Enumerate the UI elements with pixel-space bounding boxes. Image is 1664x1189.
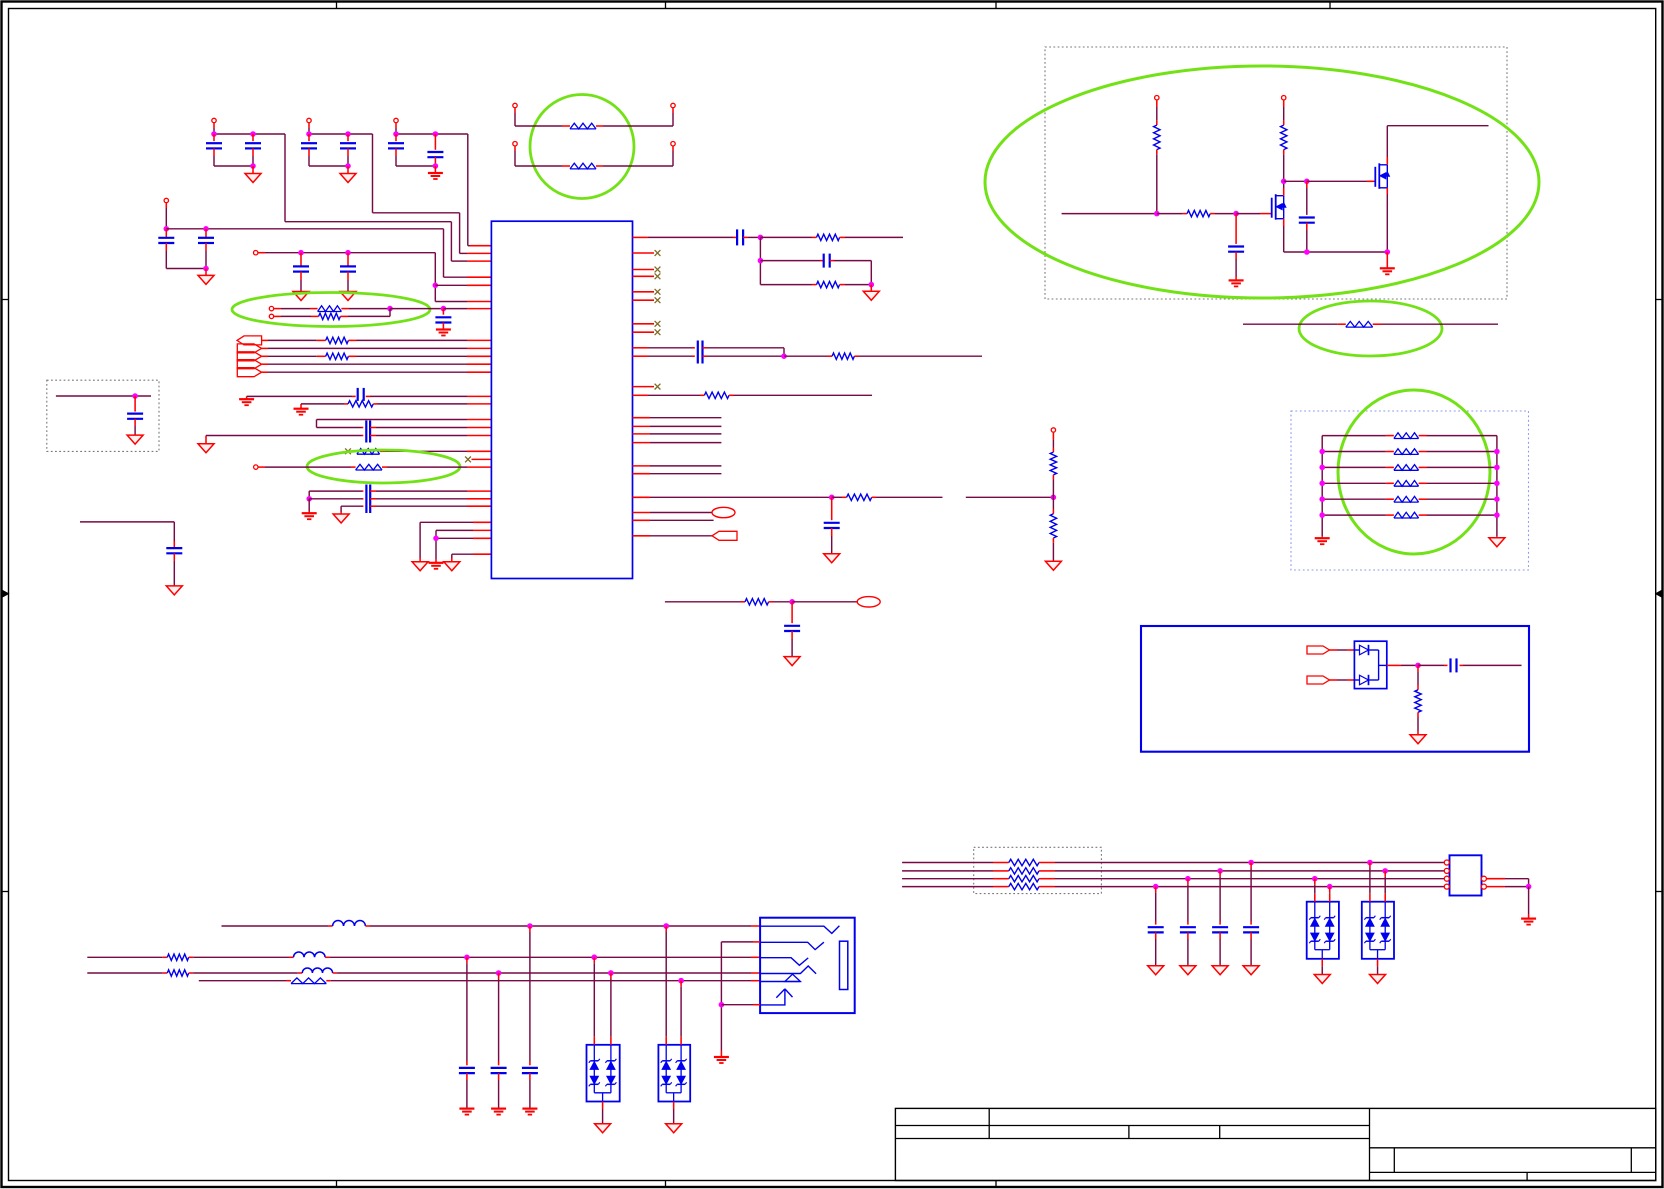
wire <box>1052 538 1054 543</box>
inductor L1 <box>328 925 333 927</box>
wire <box>262 371 268 373</box>
capacitor C16 <box>370 498 376 500</box>
ground <box>127 435 143 444</box>
diode D1 package <box>1354 641 1386 688</box>
ground <box>198 444 214 453</box>
wire <box>1322 466 1386 468</box>
wire <box>1418 664 1444 666</box>
resistor R11 <box>1050 514 1056 538</box>
junction <box>299 250 304 255</box>
connector J1 pin 5 flag <box>237 368 261 377</box>
resistor R2 <box>317 339 326 341</box>
title block bottom divider <box>1526 1172 1528 1180</box>
wire <box>1055 870 1444 872</box>
wire <box>834 260 871 262</box>
title block right column line 1 <box>1393 1148 1395 1173</box>
highlight ellipse <box>232 293 430 327</box>
ground <box>666 1124 682 1133</box>
wire <box>633 347 649 349</box>
resistor R21 <box>163 956 168 958</box>
wire <box>473 529 491 531</box>
resistor R5 <box>812 236 817 238</box>
wire <box>435 284 467 286</box>
ground <box>491 1107 506 1109</box>
ground <box>333 514 349 523</box>
wire <box>845 236 903 238</box>
junction <box>1218 869 1223 874</box>
wire <box>902 870 993 872</box>
junction <box>346 250 351 255</box>
title block column line 2 <box>1128 1126 1130 1139</box>
ground <box>444 562 460 571</box>
dashed annotation box <box>1291 411 1529 570</box>
capacitor C15 <box>365 485 367 514</box>
wire <box>376 505 467 507</box>
junction <box>719 1002 724 1007</box>
no-connect stub <box>633 299 655 301</box>
wire <box>193 972 298 974</box>
wire <box>633 417 651 419</box>
wire <box>443 308 467 310</box>
wire <box>395 123 397 128</box>
wire <box>1322 498 1386 500</box>
ferrite bead FB8 <box>1386 451 1394 453</box>
wire <box>262 363 268 365</box>
wire <box>1283 188 1285 196</box>
TVS diode pack <box>658 1045 690 1102</box>
junction <box>164 227 169 232</box>
border zone tick bottom 1 <box>336 1181 338 1188</box>
ground <box>347 166 349 174</box>
junction <box>1320 497 1325 502</box>
title block right row line 1 <box>1370 1147 1656 1149</box>
capacitor C22 <box>697 341 699 364</box>
ground <box>595 1124 611 1133</box>
wire <box>1427 451 1497 453</box>
pin <box>1481 876 1486 881</box>
junction <box>465 955 470 960</box>
wire <box>1528 887 1530 914</box>
wire <box>633 512 651 514</box>
power terminal P3 <box>394 118 398 122</box>
wire <box>603 125 673 127</box>
ferrite bead FB4 <box>352 450 357 452</box>
power terminal P1 <box>212 118 216 122</box>
capacitor C13 <box>362 427 364 429</box>
junction <box>388 306 393 311</box>
wire <box>1156 150 1158 155</box>
junction <box>592 955 597 960</box>
wire <box>376 498 467 500</box>
ground <box>205 269 207 276</box>
capacitor C27 <box>1306 181 1308 188</box>
wire <box>468 245 470 247</box>
junction <box>1313 876 1318 881</box>
wire <box>902 878 993 880</box>
junction <box>1416 663 1421 668</box>
pin <box>1481 884 1486 889</box>
title block outline <box>895 1108 1655 1180</box>
capacitor C2 <box>252 134 254 141</box>
capacitor <box>1219 922 1221 925</box>
wire <box>1322 435 1386 437</box>
TVS diode pack <box>1362 902 1394 959</box>
junction <box>1320 513 1325 518</box>
pin <box>1444 878 1450 880</box>
resistor R13 <box>1154 125 1160 150</box>
TVS diode pack <box>1307 902 1339 959</box>
wire <box>603 165 673 167</box>
no-connect stub <box>633 331 655 333</box>
border zone tick top 1 <box>336 2 338 9</box>
resistor R19 <box>993 878 1009 880</box>
ferrite bead FB3 <box>310 308 318 310</box>
ground <box>1386 252 1388 268</box>
wire <box>444 276 468 278</box>
capacitor C5 <box>395 134 397 141</box>
wire <box>473 521 491 523</box>
junction <box>1186 876 1191 881</box>
title block row line 1 <box>895 1125 1369 1127</box>
resistor R16 <box>1415 690 1421 713</box>
wire <box>760 284 812 286</box>
inductor L2 <box>289 956 294 958</box>
ground <box>784 657 800 666</box>
junction <box>251 164 256 169</box>
wire <box>1052 433 1054 440</box>
ground <box>246 396 248 398</box>
border zone tick top 4 <box>1329 2 1331 9</box>
wire <box>1463 664 1522 666</box>
ground <box>1229 279 1244 281</box>
border zone tick top 2 <box>665 2 667 9</box>
junction <box>1234 211 1239 216</box>
highlight ellipse <box>1338 390 1490 554</box>
wire <box>633 465 651 467</box>
no-connect stub <box>633 323 655 325</box>
wire <box>1330 649 1338 651</box>
ground <box>1243 966 1259 975</box>
wire <box>633 355 649 357</box>
no-connect X <box>345 448 351 454</box>
border zone tick right 1 <box>1656 299 1663 301</box>
wire <box>902 886 993 888</box>
wire <box>376 490 467 492</box>
wire <box>214 165 253 167</box>
wire <box>262 339 268 341</box>
wire <box>1322 482 1386 484</box>
flag terminal <box>712 531 737 540</box>
ferrite bead FB6 <box>1338 323 1346 325</box>
IC U1 <box>491 221 632 578</box>
capacitor C20 <box>733 236 737 238</box>
junction <box>1495 497 1500 502</box>
wire <box>87 956 163 958</box>
capacitor C24 <box>831 497 833 520</box>
highlight ellipse <box>1299 301 1442 356</box>
border zone tick left 1 <box>2 299 9 301</box>
no-connect stub <box>633 269 655 271</box>
resistor R3 <box>317 355 326 357</box>
junction <box>1281 179 1286 184</box>
wire <box>258 466 265 468</box>
wire <box>703 347 708 349</box>
junction <box>1305 179 1310 184</box>
resistor R8 <box>700 394 704 396</box>
wire <box>1330 679 1338 681</box>
junction <box>679 978 684 983</box>
wire <box>396 165 435 167</box>
highlight ellipse <box>985 66 1539 298</box>
wire <box>1386 157 1388 165</box>
capacitor C10 <box>347 253 349 267</box>
capacitor C3 <box>308 134 310 141</box>
power terminal P4 <box>164 198 168 202</box>
wire <box>1052 497 1054 509</box>
wire <box>633 473 651 475</box>
ferrite bead FB7 <box>1386 435 1394 437</box>
wire <box>514 146 516 151</box>
ground <box>412 562 428 571</box>
wire <box>859 355 982 357</box>
ferrite bead FB9 <box>1386 466 1394 468</box>
resistor R9 <box>842 496 847 498</box>
wire <box>376 435 467 437</box>
flag terminal <box>1307 646 1330 654</box>
wire <box>1052 475 1054 480</box>
wire <box>753 1004 760 1006</box>
ferrite bead FB10 <box>1386 482 1394 484</box>
wire <box>258 252 265 254</box>
ground <box>459 1107 474 1109</box>
junction <box>346 164 351 169</box>
wire <box>348 315 390 317</box>
wire <box>876 496 943 498</box>
wire <box>902 862 993 864</box>
wire <box>205 436 207 444</box>
transistor Q2 <box>1374 167 1376 187</box>
wire <box>1496 436 1498 537</box>
junction <box>346 132 351 137</box>
junction <box>869 282 874 287</box>
capacitor C8 <box>205 229 207 238</box>
ground <box>1496 537 1498 538</box>
border zone tick bottom 2 <box>665 1181 667 1188</box>
pin <box>1444 862 1450 864</box>
wire <box>274 308 281 310</box>
resistor R4 <box>344 403 348 405</box>
wire <box>734 394 873 396</box>
no-connect stub <box>633 386 655 388</box>
wire <box>748 236 760 238</box>
wire <box>514 108 516 113</box>
wire <box>1219 871 1221 877</box>
junction <box>609 971 614 976</box>
junction <box>679 978 684 983</box>
wire <box>1062 213 1157 215</box>
junction <box>307 132 312 137</box>
wire <box>1055 862 1444 864</box>
wire <box>376 427 467 429</box>
wire <box>330 956 751 958</box>
ferrite bead FB2 <box>562 165 570 167</box>
wire <box>222 925 329 927</box>
junction <box>1249 860 1254 865</box>
wire <box>274 315 281 317</box>
wire <box>633 519 651 521</box>
ground <box>1521 917 1536 919</box>
wire <box>1377 959 1379 967</box>
junction <box>592 955 597 960</box>
junction <box>1495 513 1500 518</box>
border zone tick bottom 3 <box>995 1181 997 1188</box>
ground <box>714 1056 729 1058</box>
terminal T7 <box>254 465 258 469</box>
capacitor C26 <box>1235 214 1237 244</box>
capacitor <box>1187 922 1189 925</box>
wire <box>214 133 285 135</box>
junction <box>1383 869 1388 874</box>
filter module FL1 <box>1450 855 1482 895</box>
junction <box>790 600 795 605</box>
ground <box>1045 561 1061 570</box>
wire <box>308 123 310 128</box>
ferrite bead FB5 <box>351 466 356 468</box>
wire <box>845 284 871 286</box>
resistor R20 <box>993 886 1009 888</box>
wire <box>317 419 468 421</box>
wire <box>308 491 310 499</box>
wire <box>316 420 318 428</box>
junction <box>758 235 763 240</box>
wire <box>498 973 500 979</box>
title block row line 2 <box>895 1138 1369 1140</box>
wire <box>460 252 467 254</box>
wire <box>370 395 467 397</box>
resistor R18 <box>993 870 1009 872</box>
wire <box>1387 664 1401 666</box>
wire <box>633 442 651 444</box>
wire <box>1236 213 1260 215</box>
pin <box>1444 886 1450 888</box>
wire <box>309 165 348 167</box>
junction <box>1495 465 1500 470</box>
ground <box>1410 735 1426 744</box>
capacitor C21 <box>820 260 824 262</box>
wire <box>633 535 651 537</box>
wire <box>396 133 468 135</box>
junction <box>758 258 763 263</box>
wire <box>1427 435 1497 437</box>
wire <box>1055 886 1444 888</box>
wire <box>206 435 362 437</box>
junction <box>1368 860 1373 865</box>
wire <box>1283 100 1285 107</box>
resistor R15 <box>1281 125 1287 150</box>
connector J2 <box>760 918 855 1013</box>
wire <box>1283 219 1285 226</box>
wire <box>1486 886 1505 888</box>
wire <box>467 134 469 246</box>
junction <box>1305 250 1310 255</box>
junction <box>609 971 614 976</box>
capacitor <box>1250 922 1252 925</box>
ground <box>252 166 254 174</box>
ground <box>870 285 872 292</box>
resistor R12 <box>741 601 746 603</box>
resistor R7 <box>828 355 833 357</box>
wire <box>1427 498 1497 500</box>
wire <box>784 355 828 357</box>
ground <box>166 586 182 595</box>
net stub terminal <box>712 507 735 517</box>
wire <box>760 260 820 262</box>
capacitor C17 <box>370 505 376 507</box>
wire <box>773 601 792 603</box>
connector J1 pin 3 flag <box>237 352 261 361</box>
capacitor <box>529 1061 531 1065</box>
ground <box>1180 966 1196 975</box>
junction <box>1526 884 1531 889</box>
wire <box>165 203 167 208</box>
wire <box>337 972 751 974</box>
resistor R22 <box>163 972 168 974</box>
junction <box>204 266 209 271</box>
wire <box>434 253 436 302</box>
capacitor C25 <box>791 602 793 623</box>
title block column line 1 <box>988 1108 990 1138</box>
wire <box>1187 879 1189 885</box>
junction <box>204 227 209 232</box>
title block column line 4 <box>1369 1108 1371 1180</box>
wire <box>87 972 163 974</box>
no-connect stub <box>633 252 655 254</box>
ground <box>1212 966 1228 975</box>
ferrite bead FB11 <box>1386 498 1394 500</box>
wire <box>372 134 374 213</box>
ground <box>824 554 840 563</box>
highlight circle <box>530 95 634 199</box>
wire <box>633 496 651 498</box>
wire <box>466 957 468 963</box>
wire <box>633 394 649 396</box>
capacitor C18 <box>134 396 136 412</box>
junction <box>1495 449 1500 454</box>
wire <box>1417 665 1419 672</box>
wire <box>387 466 467 468</box>
wire <box>602 1102 604 1110</box>
wire <box>247 395 352 397</box>
wire <box>193 956 289 958</box>
terminal T8 <box>1051 428 1055 432</box>
wire <box>1427 514 1497 516</box>
wire <box>357 339 468 341</box>
connector J1 pin 4 flag <box>237 360 261 369</box>
wire <box>1283 150 1285 155</box>
inductor L3 <box>298 972 303 974</box>
wire <box>317 427 362 429</box>
wire <box>473 553 491 555</box>
wire <box>707 355 784 357</box>
ground <box>302 512 317 514</box>
wire <box>1155 887 1157 893</box>
wire <box>262 347 268 349</box>
annotation box <box>1141 626 1529 752</box>
wire <box>166 268 206 270</box>
pin <box>1444 870 1450 872</box>
ferrite bead FB13 <box>287 980 292 982</box>
ground <box>1314 975 1330 984</box>
